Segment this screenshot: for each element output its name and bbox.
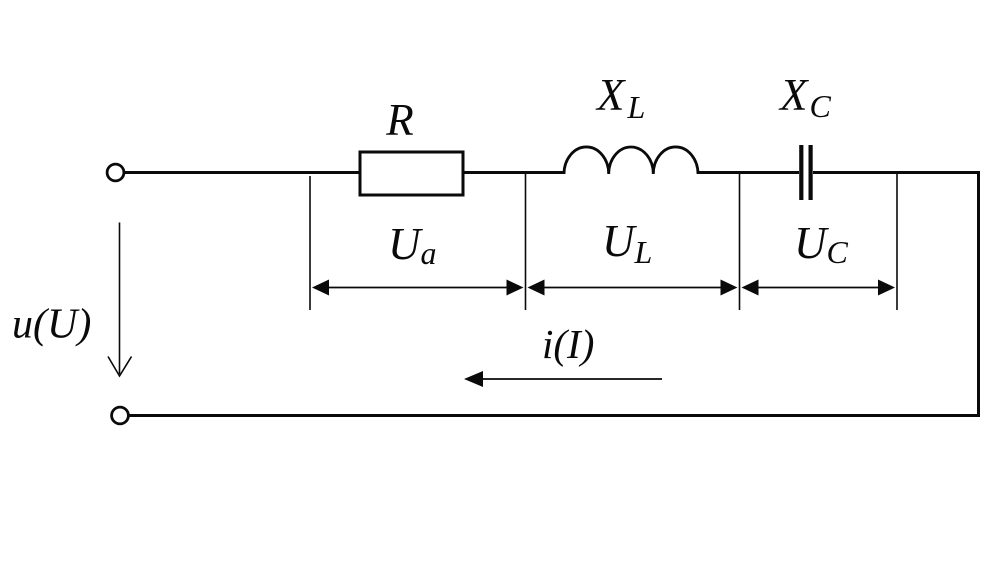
node tick 1 — [309, 176, 311, 310]
capacitor XC plate left — [799, 145, 803, 200]
wire top segment 2 — [463, 171, 564, 174]
resistor R — [360, 152, 463, 195]
dimension arrow UC — [742, 280, 896, 296]
wire bottom — [129, 414, 980, 417]
wire right vertical — [977, 171, 980, 416]
capacitor XC plate right — [808, 145, 812, 200]
terminal (bottom left) — [112, 407, 129, 424]
node tick 2 — [525, 174, 527, 310]
inductor XL — [564, 147, 698, 174]
wire top segment 3 — [698, 171, 799, 174]
dimension arrow UL — [528, 280, 738, 296]
wire top segment 4 — [813, 171, 980, 174]
wire top segment 1 — [125, 171, 361, 174]
voltage arrow u (down) — [108, 223, 132, 377]
svg-text:u(U): u(U) — [12, 302, 91, 348]
node tick 3 — [739, 174, 741, 310]
current arrow i (left) — [464, 371, 662, 387]
terminal (top left) — [107, 164, 124, 181]
svg-text:i(I): i(I) — [542, 321, 594, 367]
node tick 4 — [896, 174, 898, 310]
dimension arrow Ua — [312, 280, 524, 296]
svg-text:R: R — [385, 95, 414, 145]
